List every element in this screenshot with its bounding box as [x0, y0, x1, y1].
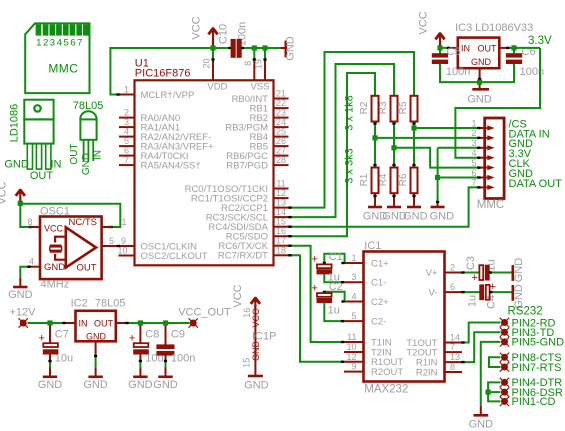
capacitor C7 [43, 343, 58, 347]
svg-text:22: 22 [276, 98, 286, 108]
U1 pin 18 RC7/RX/DT [274, 254, 289, 256]
capacitor C5 [432, 54, 447, 57]
IC1 pin 11 T1IN [344, 341, 364, 343]
svg-text:C4: C4 [485, 295, 497, 309]
MMC connector pin 6 stub [478, 177, 485, 179]
wire C3 to ground bar [489, 272, 511, 274]
MMC connector pin 4 stub [478, 157, 485, 159]
svg-text:3: 3 [471, 138, 476, 148]
supply symbol VCC arrow IC1P [254, 298, 256, 311]
svg-text:PIN5-GND: PIN5-GND [512, 337, 565, 349]
wire R2 bottom to R1 top [374, 122, 376, 168]
svg-text:GND: GND [513, 258, 525, 283]
wire IC1 R1IN to PIN3-TD [462, 332, 501, 362]
svg-text:+12V: +12V [10, 307, 37, 319]
IC1 pin 12 R1OUT [344, 361, 364, 363]
svg-text:27: 27 [276, 146, 286, 156]
wire U1 pin13 to R5 [289, 52, 415, 208]
junction MMC GND pin6 [435, 175, 440, 180]
svg-text:10: 10 [118, 246, 128, 256]
wire VCC junction to C10 [216, 47, 232, 49]
IC U1 body [135, 80, 274, 265]
svg-text:78L05: 78L05 [95, 298, 126, 310]
capacitor C7 wire top [49, 326, 51, 344]
wire R3 bottom to R4 top [393, 122, 395, 168]
ground symbol bottom right [480, 406, 482, 414]
svg-text:20: 20 [202, 58, 212, 68]
svg-text:GND: GND [403, 211, 428, 223]
junction PIN6-DSR [486, 390, 491, 395]
wire C10 to GND (VSS net) [241, 47, 280, 49]
svg-text:OUT: OUT [30, 170, 54, 182]
ground symbol under IC1P [248, 375, 263, 378]
pad PIN4-DTR [500, 378, 509, 387]
OSC1 pin 4 stub [30, 266, 40, 268]
capacitor C5 wire top [439, 51, 441, 54]
IC1P pin 16 VCC line [254, 304, 256, 375]
wire C4 to ground bar [490, 291, 512, 293]
capacitor C7 wire bottom [49, 354, 51, 360]
svg-text:2: 2 [450, 263, 455, 273]
svg-text:MCLR†/VPP: MCLR†/VPP [141, 90, 195, 101]
MMC connector pin 5 stub [478, 167, 485, 169]
wire C1 bottom to IC1 pin3 [324, 274, 344, 282]
ground symbol under R1 [368, 206, 382, 209]
svg-text:R6: R6 [398, 173, 409, 186]
svg-text:3 x 1k8: 3 x 1k8 [344, 95, 356, 130]
ground wire stub under MMC GND [437, 204, 439, 207]
ground symbol under C9 [165, 368, 167, 377]
ground symbol under R4 [387, 206, 401, 209]
LD1086 package hole [34, 105, 40, 111]
pad PIN2-RD [500, 318, 509, 327]
svg-text:13: 13 [450, 352, 460, 362]
svg-text:GND: GND [128, 379, 153, 391]
capacitor C9 [157, 345, 174, 349]
U1 pin 3 RA1/AN1 [119, 126, 135, 128]
svg-text:RA5/AN4/SS†: RA5/AN4/SS† [141, 160, 201, 171]
IC1 pin 2 V+ [445, 272, 463, 274]
wire MMC GND pin3 [438, 147, 480, 149]
svg-text:10u: 10u [55, 353, 73, 365]
svg-text:GND: GND [153, 379, 178, 391]
svg-text:8: 8 [243, 61, 253, 66]
svg-text:8: 8 [450, 362, 455, 372]
svg-text:OSC2/CLKOUT: OSC2/CLKOUT [141, 251, 208, 262]
svg-text:GND: GND [285, 36, 297, 61]
IC1 pin 5 C2- [344, 320, 364, 322]
svg-text:GND: GND [363, 211, 388, 223]
wire GND rail to C6 [482, 64, 514, 83]
svg-text:GND: GND [471, 57, 492, 67]
junction IC3 GND [477, 80, 482, 85]
ground symbol under MMC GND net [431, 206, 445, 209]
svg-text:9: 9 [351, 362, 356, 372]
wire IC2 OUT to VCC_OUT pad [126, 322, 190, 324]
junction VCC-C10-pin20 [210, 45, 215, 50]
svg-text:R2OUT: R2OUT [371, 367, 403, 378]
svg-text:C2-: C2- [371, 316, 386, 327]
svg-text:5: 5 [471, 158, 476, 168]
capacitor C9 wire bottom [165, 355, 167, 360]
wire IC1 T1OUT to PIN2-RD [462, 323, 501, 343]
wire OSC1 pin 4 to ground [20, 267, 30, 278]
svg-text:LD1086V33: LD1086V33 [475, 22, 533, 34]
svg-text:MMC: MMC [48, 62, 78, 76]
U1 pin 4 RA2/AN2/VREF- [119, 136, 135, 138]
svg-text:GND: GND [81, 153, 92, 175]
svg-text:R2IN: R2IN [416, 367, 438, 378]
svg-text:25: 25 [276, 127, 286, 137]
junction VSS pin8 [252, 45, 257, 50]
capacitor C6 wire top [513, 50, 515, 53]
svg-text:GND: GND [467, 93, 492, 105]
svg-text:2: 2 [471, 128, 476, 138]
U1 pin 21 RB0/INT [274, 98, 289, 100]
svg-text:C9: C9 [171, 329, 185, 341]
svg-text:23: 23 [276, 108, 286, 118]
OSC1 pin 5 to U1 pin 9 wire [102, 245, 135, 247]
svg-text:IC3: IC3 [455, 22, 472, 34]
U1 pin 8 VSS wire [253, 48, 255, 59]
svg-text:17: 17 [276, 236, 286, 246]
wire R4 to ground [393, 193, 395, 206]
svg-text:12: 12 [276, 188, 286, 198]
svg-text:100n: 100n [446, 66, 470, 78]
junction C9 [163, 320, 168, 325]
regulator IC2 body [76, 311, 116, 342]
capacitor C1 [317, 264, 332, 268]
pad PIN1-CD [500, 397, 509, 406]
svg-text:OUT: OUT [478, 44, 498, 54]
svg-text:OUT: OUT [69, 143, 80, 164]
wire MMC GND pin6 branch [440, 177, 480, 179]
wire +12V to IC2 IN [28, 322, 67, 324]
svg-text:13: 13 [276, 198, 286, 208]
svg-text:11: 11 [276, 179, 285, 189]
svg-text:4: 4 [29, 257, 34, 267]
svg-text:GND: GND [83, 379, 108, 391]
supply symbol VCC arrow left [19, 190, 21, 204]
U1 pin 7 RA5/AN4/SS [119, 164, 135, 166]
U1 pin 24 RB3/PGM [274, 126, 289, 128]
svg-text:78L05: 78L05 [73, 100, 104, 112]
wire VCC to IC3 IN [443, 47, 449, 49]
MMC connector pin 2 contact [487, 135, 494, 140]
LD1086 package tab [24, 100, 53, 120]
svg-text:7: 7 [471, 178, 476, 188]
svg-text:15: 15 [242, 358, 252, 368]
wire PIN4-DTR PIN6-DSR PIN1-CD [488, 382, 500, 401]
U1 pin 23 RB2 [274, 117, 289, 119]
svg-text:5: 5 [351, 311, 356, 321]
svg-text:6: 6 [70, 38, 75, 49]
capacitor C3 [479, 265, 483, 280]
svg-text:RC7/RX/DT: RC7/RX/DT [218, 251, 268, 262]
svg-text:VCC: VCC [44, 224, 64, 234]
wire R5 bottom to R6 top [413, 122, 415, 168]
U1 pin 14 RC3/SCK/SCL [274, 216, 289, 218]
IC3 OUT pin stub [499, 47, 507, 49]
MMC connector pin 2 stub [478, 137, 485, 139]
wire C5 to GND rail [440, 64, 477, 83]
ground symbol under C7 [49, 368, 51, 377]
svg-text:GND: GND [469, 418, 494, 430]
MMC connector pin 1 contact [487, 125, 494, 130]
LD1086 package body [24, 119, 53, 143]
pad VCC_OUT [189, 318, 198, 327]
MMC connector pin 7 stub [478, 186, 485, 188]
MMC card package outline [25, 23, 89, 93]
junction VCC-OSC1 [18, 201, 23, 206]
svg-text:2: 2 [124, 108, 129, 118]
supply symbol VCC arrow top [212, 28, 214, 48]
svg-text:IN: IN [51, 159, 62, 171]
svg-text:MAX232: MAX232 [364, 384, 408, 396]
svg-text:3.3V: 3.3V [528, 35, 552, 47]
svg-text:RS232: RS232 [508, 306, 543, 318]
svg-text:15: 15 [276, 217, 286, 227]
pad PIN6-DSR [500, 387, 509, 396]
svg-text:C2: C2 [329, 281, 343, 293]
svg-text:1u: 1u [467, 295, 479, 307]
wire DATA IN divider to MMC pin2 [378, 137, 480, 139]
IC2 GND pin wire [95, 341, 97, 354]
wire VCC to OSC1 pin 1 (top route) [20, 204, 120, 227]
U1 pin 27 RB6/PGC [274, 155, 289, 157]
svg-text:IN: IN [79, 319, 88, 329]
pad PIN5-GND [500, 337, 509, 346]
IC1 pin 6 V- [445, 291, 463, 293]
svg-text:VCC: VCC [0, 181, 9, 204]
U1 pin 26 RB5 [274, 145, 289, 147]
svg-text:5: 5 [109, 236, 114, 246]
U1 pin 28 RB7/PGD [274, 164, 289, 166]
svg-text:3: 3 [50, 38, 55, 49]
svg-text:2: 2 [43, 38, 48, 49]
svg-text:7: 7 [77, 38, 82, 49]
svg-text:GND: GND [8, 289, 33, 301]
svg-text:C1-: C1- [371, 278, 386, 289]
svg-text:4: 4 [57, 38, 62, 49]
svg-text:5: 5 [64, 38, 69, 49]
svg-text:RB7/PGD: RB7/PGD [226, 160, 268, 171]
svg-text:24: 24 [276, 117, 286, 127]
ground symbol under IC2 [95, 368, 97, 377]
svg-text:GND: GND [244, 379, 269, 391]
MMC connector pin 1 stub [478, 127, 485, 129]
U1 pin 6 RA4/T0CKI [119, 155, 135, 157]
svg-text:1: 1 [36, 38, 41, 49]
svg-text:10: 10 [346, 342, 356, 352]
wire R6 to ground [413, 193, 415, 206]
capacitor C8 [134, 343, 149, 347]
svg-text:+: + [472, 272, 478, 284]
wire R1 to ground [374, 193, 376, 206]
resistor R6 [411, 168, 418, 194]
U1 pin 10 stub OSC2 [119, 255, 135, 257]
resistor R1 [372, 168, 379, 194]
svg-text:VCC: VCC [418, 11, 430, 34]
IC1 pin 13 R1IN [445, 361, 463, 363]
wire CS divider to MMC pin1 [417, 127, 480, 129]
ground symbol top (rotated) [281, 47, 286, 49]
U1 pin 22 RB1 [274, 107, 289, 109]
junction R2/R1 node DATA IN [372, 135, 377, 140]
supply symbol VCC arrow IC3 [439, 33, 441, 48]
U1 pin 5 RA3/AN3/VREF+ [119, 145, 135, 147]
svg-text:18: 18 [276, 245, 286, 255]
svg-text:V+: V+ [426, 268, 438, 279]
svg-text:3: 3 [351, 272, 356, 282]
IC1 pin 3 C1- [344, 281, 364, 283]
svg-text:C2+: C2+ [371, 297, 389, 308]
OSC1 pin 8 stub [30, 226, 41, 228]
wire PIN5-GND to ground [481, 342, 501, 406]
svg-text:5: 5 [124, 136, 129, 146]
svg-text:DATA OUT: DATA OUT [509, 178, 563, 190]
svg-text:7: 7 [450, 342, 455, 352]
svg-text:R3: R3 [378, 101, 389, 114]
svg-text:VCC: VCC [191, 16, 203, 39]
svg-text:GND: GND [251, 341, 261, 362]
svg-text:C5: C5 [447, 46, 461, 58]
U1 pin 15 RC4/SDI/SDA [274, 226, 289, 228]
wire C2 bottom to IC1 pin5 [324, 303, 344, 322]
U1 pin 20 VDD wire [212, 48, 214, 59]
svg-text:4: 4 [124, 127, 129, 137]
IC2 OUT pin stub [116, 322, 126, 324]
U1 pin 25 RB4 [274, 136, 289, 138]
MMC connector pin 4 contact [487, 155, 494, 160]
IC1 pin 10 T2IN [344, 351, 364, 353]
svg-text:GND: GND [38, 379, 63, 391]
svg-text:7: 7 [124, 155, 129, 165]
IC1 pin 1 C1+ [344, 262, 364, 264]
U1 pin 11 RC0/T1OSO/T1CKI [274, 188, 289, 190]
svg-text:12: 12 [346, 352, 356, 362]
svg-text:R5: R5 [398, 101, 409, 114]
IC1 pin 7 T2OUT [445, 351, 463, 353]
OSC1 crystal [55, 237, 66, 260]
wire MMC GND vertical [437, 148, 439, 204]
svg-text:VCC: VCC [251, 308, 261, 328]
svg-text:6: 6 [450, 282, 455, 292]
svg-text:VSS: VSS [250, 82, 269, 93]
wire VCC to OSC1 pin 8 [20, 203, 29, 227]
svg-text:3 x 3k3: 3 x 3k3 [344, 148, 356, 183]
78L05 package body [80, 111, 96, 119]
pad PIN8-CTS [500, 353, 509, 362]
svg-text:VCC_OUT: VCC_OUT [178, 307, 231, 319]
MMC connector pin 3 contact [487, 145, 494, 150]
wire IC1 V+ to C3 [462, 272, 479, 274]
svg-text:C1+: C1+ [371, 258, 389, 269]
wire 3.3V from IC3 OUT [507, 47, 540, 49]
svg-text:PIN1-CD: PIN1-CD [512, 396, 556, 408]
IC1 pin 14 T1OUT [445, 342, 463, 344]
svg-text:PIC16F876: PIC16F876 [135, 68, 191, 80]
wire U1 pin17 TX to IC1 T1IN [289, 246, 345, 342]
svg-text:OUT: OUT [76, 263, 96, 274]
svg-text:PIN7-RTS: PIN7-RTS [512, 362, 562, 374]
capacitor C10 [231, 39, 235, 57]
wire junction to PIN6-DSR pad [491, 391, 501, 393]
pad PIN3-TD [500, 328, 509, 337]
wire U1 pin16 to R2 [289, 73, 376, 236]
wire MCLR net pin1 to VCC [110, 48, 210, 95]
svg-text:GND: GND [430, 211, 455, 223]
IC2 IN pin stub [66, 322, 76, 324]
svg-text:4: 4 [471, 148, 476, 158]
svg-text:6: 6 [471, 168, 476, 178]
svg-text:C1: C1 [329, 251, 343, 263]
svg-text:26: 26 [276, 136, 286, 146]
svg-text:GND: GND [86, 332, 107, 342]
svg-text:6: 6 [124, 146, 129, 156]
capacitor C4 [480, 285, 484, 300]
wire U1 pin15 to MMC DATA OUT [289, 187, 480, 226]
svg-text:C8: C8 [145, 329, 159, 341]
OSC1 pin 1 stub [102, 226, 112, 228]
capacitor C9 wire top [165, 326, 167, 345]
svg-text:4: 4 [351, 292, 356, 302]
78L05 package legs [83, 140, 85, 161]
junction 3.3V C6 [511, 45, 516, 50]
IC3 IN pin stub [449, 47, 458, 49]
svg-text:11: 11 [347, 332, 356, 342]
svg-text:C3: C3 [465, 256, 477, 270]
svg-text:NC/TS: NC/TS [69, 217, 98, 228]
ground symbol under IC3 [472, 88, 489, 91]
ground symbol under R6 [407, 206, 421, 209]
ground symbol right of C4 (rotated) [511, 291, 514, 293]
U1 pin 16 RC5/SDO [274, 235, 289, 237]
capacitor C8 wire bottom [139, 354, 141, 360]
svg-text:14: 14 [276, 207, 286, 217]
svg-text:4MHz: 4MHz [41, 279, 70, 291]
resistor R2 [372, 96, 379, 122]
MMC connector pin 7 contact [487, 185, 494, 190]
wire IC1 V- to C4 [462, 291, 480, 293]
LD1086 package legs [27, 144, 32, 170]
ground symbol below OSC1 [19, 278, 21, 287]
svg-text:GND: GND [4, 159, 29, 171]
svg-text:R1: R1 [359, 173, 370, 186]
svg-text:R4: R4 [378, 173, 389, 186]
IC1 pin 4 C2+ [344, 301, 364, 303]
wire U1 pin18 RX to IC1 R1OUT [289, 255, 345, 361]
ground symbol right of C3 (rotated) [511, 272, 514, 274]
svg-text:3: 3 [124, 117, 129, 127]
MMC card contact pads [36, 24, 89, 35]
svg-text:14: 14 [450, 333, 460, 343]
svg-text:1: 1 [351, 253, 356, 263]
svg-text:IC1P: IC1P [252, 330, 276, 342]
svg-text:V-: V- [429, 287, 438, 298]
svg-text:MMC: MMC [477, 199, 504, 211]
U1 pin 17 RC6/TX/CK [274, 245, 289, 247]
resistor R3 [391, 96, 398, 122]
svg-text:LD1086: LD1086 [9, 104, 21, 143]
IC3 GND pin wire [479, 68, 481, 88]
svg-text:9: 9 [121, 236, 126, 246]
U1 pin 19 VSS wire [264, 48, 266, 59]
connector MMC body [485, 118, 504, 199]
svg-text:16: 16 [276, 226, 286, 236]
MMC connector pin 6 contact [487, 175, 494, 180]
junction C8 [138, 320, 143, 325]
